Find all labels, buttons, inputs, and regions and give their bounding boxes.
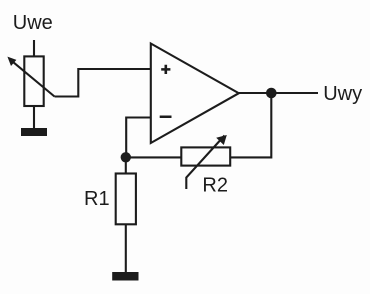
potentiometer body [24, 56, 43, 106]
ground (R1) [112, 272, 138, 281]
wire op-amp − input to node A [126, 118, 151, 158]
svg-text:Uwe: Uwe [13, 12, 53, 34]
resistor R1 body [116, 174, 136, 225]
wire R1 to ground [125, 224, 127, 272]
wire potentiometer to ground [33, 106, 35, 128]
ground (potentiometer) [21, 128, 47, 136]
node B (output junction) [266, 88, 277, 99]
potentiometer arrow shaft [13, 62, 55, 97]
wire Uwe to potentiometer [33, 40, 35, 56]
wire wiper to op-amp + input [55, 69, 151, 97]
svg-text:R1: R1 [84, 188, 110, 210]
svg-text:R2: R2 [202, 175, 228, 197]
svg-text:Uwy: Uwy [323, 83, 362, 105]
op-amp − input symbol [160, 116, 172, 119]
resistor R2 body [181, 147, 230, 165]
wire node A to R1 [125, 157, 127, 173]
node A (junction − input / R1 / R2) [121, 152, 131, 162]
op-amp + input symbol [161, 65, 170, 74]
potentiometer arrowhead [7, 57, 16, 66]
resistor R2 arrowhead [216, 135, 227, 145]
wire R2 to output node B [231, 93, 272, 157]
op-amp U1 body [151, 44, 239, 144]
wire node A to R2 [126, 156, 182, 158]
wire op-amp output to Uwy [239, 92, 318, 94]
resistor R2 arrow shaft [186, 136, 224, 190]
